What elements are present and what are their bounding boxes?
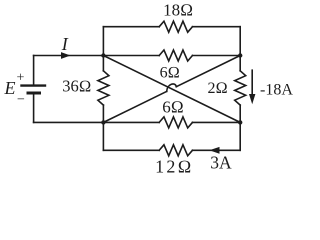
wire row2 right	[192, 55, 240, 57]
resistor 6ohm row3 zigzag	[159, 117, 192, 128]
wire top loop right vertical	[239, 27, 241, 56]
wire bottom loop left horizontal	[103, 149, 159, 151]
node D junction dot	[238, 120, 242, 124]
wire row3 right	[192, 121, 240, 123]
node B junction dot	[101, 120, 105, 124]
wire crossover hop arc	[167, 84, 177, 91]
svg-text:36Ω: 36Ω	[62, 77, 91, 96]
wire 2ohm top lead	[239, 56, 241, 71]
current arrow -18A head	[249, 94, 255, 104]
svg-text:2Ω: 2Ω	[207, 80, 227, 97]
wire top-left horizontal (I wire)	[34, 55, 160, 57]
wire bottom loop right horizontal	[192, 149, 240, 151]
svg-text:18Ω: 18Ω	[163, 1, 193, 20]
resistor 6ohm row2 zigzag	[159, 50, 192, 61]
svg-text:12Ω: 12Ω	[155, 157, 193, 177]
wire top loop left horizontal	[103, 26, 159, 28]
current arrow -18A line	[251, 70, 253, 96]
resistor R 2ohm vertical zigzag	[235, 71, 246, 105]
wire diagonal B to C lower segment	[103, 91, 166, 122]
wire 2ohm bottom lead	[239, 105, 241, 122]
current arrow I head	[61, 52, 71, 59]
node C junction dot	[238, 53, 242, 57]
svg-text:−: −	[17, 93, 25, 108]
svg-text:3A: 3A	[210, 153, 232, 173]
svg-text:6Ω: 6Ω	[162, 98, 184, 117]
svg-text:-18A: -18A	[260, 82, 293, 99]
wire battery top lead	[33, 56, 35, 85]
resistor R 36ohm vertical zigzag	[98, 71, 109, 105]
current arrow 3A head	[209, 147, 219, 154]
wire bottom loop right vertical	[239, 122, 241, 150]
node A junction dot	[101, 53, 105, 57]
svg-text:6Ω: 6Ω	[160, 64, 180, 81]
svg-text:+: +	[17, 71, 25, 86]
resistor R 18ohm zigzag	[159, 21, 192, 32]
svg-text:I: I	[61, 34, 69, 54]
svg-text:E: E	[4, 78, 16, 98]
wire battery bottom lead	[33, 95, 35, 123]
wire bottom-left horizontal	[34, 121, 104, 123]
battery E plates	[22, 86, 46, 93]
wire bottom loop left vertical	[102, 122, 104, 150]
wire 36ohm bottom lead	[102, 105, 104, 122]
wire top loop left vertical	[102, 27, 104, 56]
resistor R 12ohm zigzag	[159, 145, 192, 156]
wire diagonal B to C upper segment	[176, 56, 240, 87]
wire top loop right horizontal	[192, 26, 240, 28]
wire 36ohm top lead	[102, 56, 104, 71]
wire row3 left	[103, 121, 159, 123]
wire diagonal A to D	[103, 56, 240, 123]
